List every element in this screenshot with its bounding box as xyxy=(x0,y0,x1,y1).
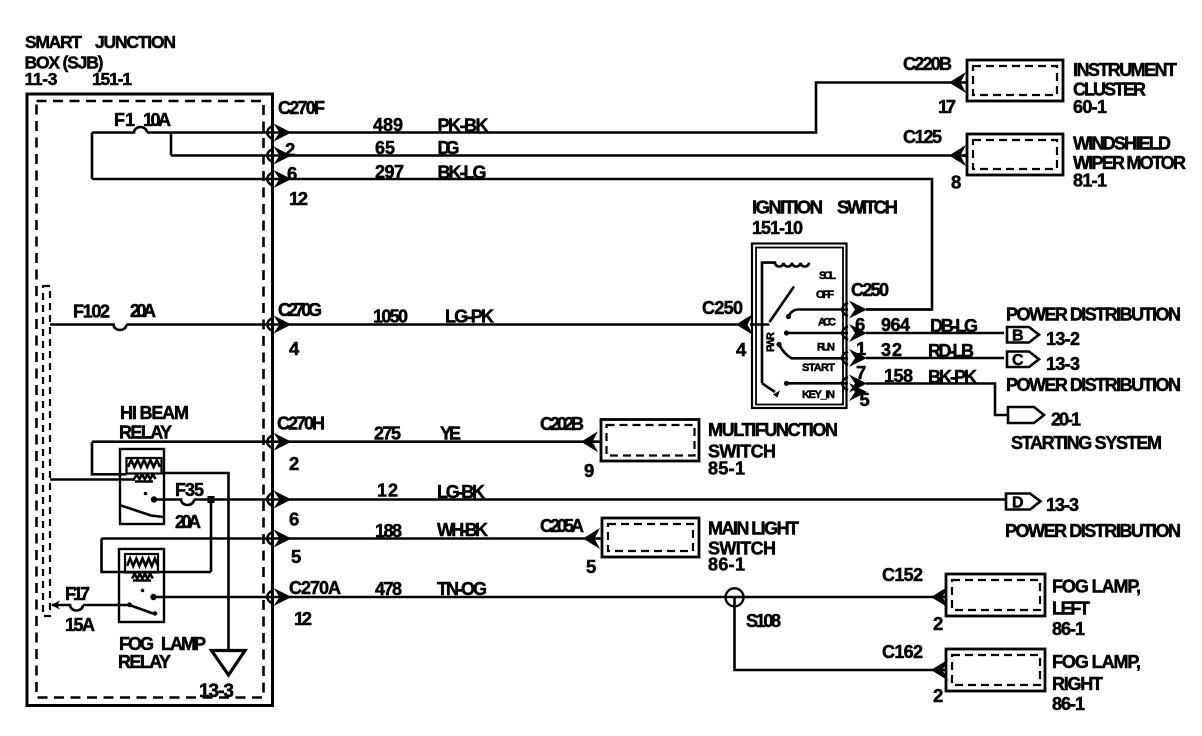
svg-text:WH-BK: WH-BK xyxy=(437,520,488,540)
svg-text:489: 489 xyxy=(373,115,403,135)
svg-text:SWITCH: SWITCH xyxy=(837,197,898,218)
svg-text:13-3: 13-3 xyxy=(1046,495,1079,515)
svg-text:POWER DISTRIBUTION: POWER DISTRIBUTION xyxy=(1006,375,1181,395)
svg-text:WINDSHIELD: WINDSHIELD xyxy=(1073,134,1171,154)
svg-text:C270H: C270H xyxy=(277,414,325,434)
svg-text:86-1: 86-1 xyxy=(1052,694,1085,714)
svg-text:17: 17 xyxy=(938,96,956,117)
svg-text:LG-BK: LG-BK xyxy=(437,482,485,502)
svg-text:SMART: SMART xyxy=(25,32,82,52)
svg-text:RIGHT: RIGHT xyxy=(1052,674,1103,694)
svg-text:STARTING SYSTEM: STARTING SYSTEM xyxy=(1011,433,1162,453)
svg-text:RD-LB: RD-LB xyxy=(928,341,974,361)
svg-text:SOL: SOL xyxy=(819,270,836,282)
svg-text:D: D xyxy=(1012,495,1024,512)
svg-text:C250: C250 xyxy=(702,298,743,318)
svg-text:C270F: C270F xyxy=(278,98,325,118)
svg-text:12: 12 xyxy=(377,481,398,501)
svg-text:C270A: C270A xyxy=(289,578,341,598)
svg-text:2: 2 xyxy=(933,613,943,634)
svg-text:4: 4 xyxy=(736,339,747,360)
svg-text:13-3: 13-3 xyxy=(1046,354,1080,374)
svg-text:C152: C152 xyxy=(882,565,923,585)
svg-text:C205A: C205A xyxy=(540,516,584,536)
svg-text:20A: 20A xyxy=(175,512,201,532)
svg-text:C270G: C270G xyxy=(278,300,322,320)
svg-text:6: 6 xyxy=(289,509,299,530)
svg-text:B: B xyxy=(1012,328,1024,345)
svg-text:13-2: 13-2 xyxy=(1046,329,1080,349)
svg-text:20-1: 20-1 xyxy=(1051,410,1081,430)
svg-text:2: 2 xyxy=(289,453,299,474)
svg-text:PWR: PWR xyxy=(765,332,777,352)
svg-text:BK-LG: BK-LG xyxy=(438,163,487,183)
svg-text:151-10: 151-10 xyxy=(752,218,803,238)
svg-text:60-1: 60-1 xyxy=(1073,97,1107,117)
svg-text:964: 964 xyxy=(881,315,910,335)
svg-text:PK-BK: PK-BK xyxy=(438,116,489,136)
svg-text:F17: F17 xyxy=(65,584,90,604)
svg-text:32: 32 xyxy=(881,340,902,360)
svg-text:S108: S108 xyxy=(746,611,781,631)
svg-text:F102: F102 xyxy=(73,302,110,322)
svg-text:151-1: 151-1 xyxy=(92,69,132,89)
svg-text:5: 5 xyxy=(291,546,301,567)
svg-text:RELAY: RELAY xyxy=(119,423,172,443)
svg-text:86-1: 86-1 xyxy=(708,555,745,575)
svg-text:20A: 20A xyxy=(130,301,156,321)
svg-text:297: 297 xyxy=(375,162,404,182)
svg-text:15A: 15A xyxy=(65,615,95,635)
svg-text:C250: C250 xyxy=(851,280,889,300)
svg-text:RELAY: RELAY xyxy=(118,652,171,672)
svg-text:LEFT: LEFT xyxy=(1052,599,1090,619)
svg-text:INSTRUMENT: INSTRUMENT xyxy=(1073,60,1177,80)
svg-text:12: 12 xyxy=(294,608,312,629)
svg-text:IGNITION: IGNITION xyxy=(752,197,823,218)
svg-text:10A: 10A xyxy=(143,110,171,130)
svg-text:C125: C125 xyxy=(903,127,942,147)
svg-text:85-1: 85-1 xyxy=(708,459,745,479)
svg-text:START: START xyxy=(802,362,835,374)
svg-text:POWER DISTRIBUTION: POWER DISTRIBUTION xyxy=(1005,521,1181,541)
svg-text:FOG LAMP,: FOG LAMP, xyxy=(1052,577,1141,597)
svg-text:FOG: FOG xyxy=(119,634,154,654)
svg-text:RUN: RUN xyxy=(817,342,835,354)
svg-text:2: 2 xyxy=(933,685,943,706)
svg-text:65: 65 xyxy=(375,138,395,158)
svg-text:86-1: 86-1 xyxy=(1052,619,1085,639)
svg-text:BK-PK: BK-PK xyxy=(928,367,977,387)
svg-text:ACC: ACC xyxy=(818,317,836,329)
svg-text:12: 12 xyxy=(289,188,308,209)
svg-text:81-1: 81-1 xyxy=(1073,171,1107,191)
svg-text:POWER DISTRIBUTION: POWER DISTRIBUTION xyxy=(1006,305,1181,325)
svg-text:11-3: 11-3 xyxy=(25,69,58,89)
svg-text:C220B: C220B xyxy=(903,54,952,74)
svg-text:158: 158 xyxy=(884,366,913,386)
svg-text:MULTIFUNCTION: MULTIFUNCTION xyxy=(708,420,838,440)
svg-text:C162: C162 xyxy=(882,642,923,662)
svg-text:HI BEAM: HI BEAM xyxy=(120,403,189,423)
svg-text:F35: F35 xyxy=(175,480,204,500)
svg-text:LAMP: LAMP xyxy=(161,634,206,654)
svg-text:DB-LG: DB-LG xyxy=(930,316,978,336)
svg-text:JUNCTION: JUNCTION xyxy=(95,32,176,52)
svg-text:13-3: 13-3 xyxy=(199,681,234,702)
svg-text:OFF: OFF xyxy=(816,289,834,301)
svg-text:MAIN LIGHT: MAIN LIGHT xyxy=(708,519,799,539)
svg-text:F1: F1 xyxy=(114,110,135,130)
svg-text:C202B: C202B xyxy=(540,414,584,434)
svg-text:6: 6 xyxy=(287,163,297,184)
svg-text:DG: DG xyxy=(438,138,460,158)
svg-text:8: 8 xyxy=(951,172,961,193)
svg-text:5: 5 xyxy=(586,556,596,577)
svg-text:C: C xyxy=(1012,352,1024,369)
svg-text:4: 4 xyxy=(289,338,300,359)
svg-text:9: 9 xyxy=(584,460,594,481)
svg-text:KEY_IN: KEY_IN xyxy=(802,389,835,401)
svg-text:FOG LAMP,: FOG LAMP, xyxy=(1052,652,1141,672)
